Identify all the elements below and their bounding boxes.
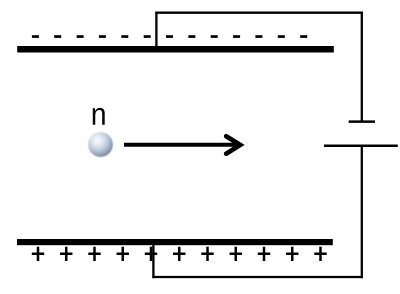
wire right upper vertical [361, 12, 363, 121]
neutron ball [88, 132, 113, 157]
wire right lower vertical [361, 146, 363, 278]
wire bottom horizontal [152, 276, 363, 278]
velocity arrow shaft [124, 143, 238, 147]
top plate (negative) [17, 46, 334, 53]
negative charges on top plate [32, 35, 307, 38]
velocity arrow head [226, 136, 240, 154]
wire from bottom plate down [152, 244, 154, 278]
label n [93, 108, 105, 125]
positive charges on bottom plate [32, 247, 327, 261]
wire from top plate up [155, 12, 157, 47]
battery negative terminal (short bar) [349, 120, 375, 123]
battery positive terminal (long bar) [324, 145, 398, 148]
bottom plate (positive) [17, 239, 333, 245]
wire top horizontal [155, 12, 363, 14]
